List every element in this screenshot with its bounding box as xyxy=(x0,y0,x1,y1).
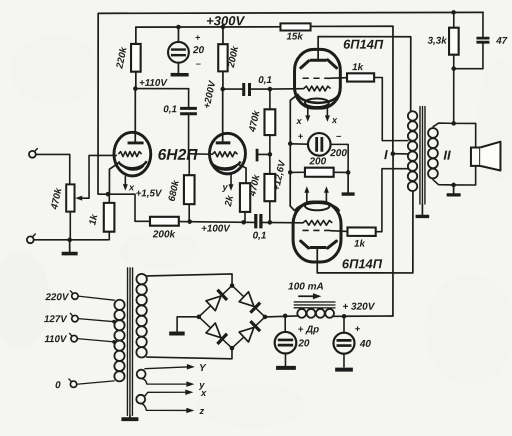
label y xyxy=(198,379,205,390)
label Y xyxy=(199,363,207,374)
label II secondary xyxy=(443,148,451,163)
svg-text:3,3k: 3,3k xyxy=(428,36,448,47)
cathode triode 1 xyxy=(109,161,146,194)
svg-text:200: 200 xyxy=(309,156,327,167)
wire common cathode line xyxy=(290,144,294,211)
resistor 200k feedback xyxy=(150,217,179,226)
screen grid lower (dashed) xyxy=(302,230,347,231)
ground 40uF filter xyxy=(335,368,353,372)
capacitor 20uF filter xyxy=(275,316,297,366)
label 220k xyxy=(114,46,130,71)
svg-text:15k: 15k xyxy=(286,32,303,43)
node +200V xyxy=(220,87,225,92)
svg-text:–: – xyxy=(336,130,341,141)
connector mains 220V xyxy=(70,291,114,300)
label 6П14П lower xyxy=(342,256,383,271)
tube 6П14П lower envelope xyxy=(293,202,341,262)
node bridge right xyxy=(263,315,268,320)
label +200V vertical xyxy=(202,79,219,110)
node 680k bottom xyxy=(187,219,192,224)
resistor 2k cathode triode 2 xyxy=(240,183,250,222)
ground bridge xyxy=(169,332,185,336)
wire +110V node to coupling cap xyxy=(135,88,188,90)
wire cathode to feedback resistor 200k xyxy=(108,194,150,221)
wire +320V to center tap riser xyxy=(344,315,393,317)
label 15k xyxy=(286,32,303,43)
connector input jack top xyxy=(29,149,37,158)
control grid upper zigzag xyxy=(270,86,331,91)
label z xyxy=(198,405,204,416)
resistor 200k plate load 2 xyxy=(218,27,227,89)
transformer power HV secondary xyxy=(136,274,146,358)
label I primary xyxy=(384,147,388,162)
capacitor 20uF electrolytic (decoupling) xyxy=(168,27,189,73)
transformer output secondary winding II xyxy=(428,128,438,178)
heater output y xyxy=(147,381,195,387)
label +320V xyxy=(342,302,375,313)
svg-text:1k: 1k xyxy=(354,239,365,250)
label 200 resistor xyxy=(309,156,327,167)
cathode upper 6П14П xyxy=(290,94,339,144)
wire junction to secondary top xyxy=(453,69,455,124)
heater output x xyxy=(148,390,194,396)
heater output z xyxy=(146,408,194,413)
node bridge left xyxy=(197,315,202,320)
wire secondary to speaker top xyxy=(454,123,476,147)
svg-text:100 mA: 100 mA xyxy=(288,282,324,293)
label +12,6V vertical xyxy=(271,158,288,192)
node primary tap 110V xyxy=(112,340,116,344)
wire +200V node xyxy=(223,88,243,90)
resistor 680k grid leak xyxy=(184,154,195,222)
control grid lower zigzag xyxy=(303,220,332,225)
svg-text:x: x xyxy=(296,116,303,126)
resistor 1k screen upper xyxy=(347,73,408,140)
capacitor 0.1 interstage coupling xyxy=(180,89,197,154)
node bridge top xyxy=(230,283,235,288)
node midpoint 470k divider xyxy=(268,152,273,157)
label 0,1 top xyxy=(258,75,272,86)
node 3.3k/47 junction xyxy=(451,66,456,71)
node center tap xyxy=(391,151,396,156)
svg-text:II: II xyxy=(443,148,451,163)
label +1,5V xyxy=(136,188,163,199)
svg-text:20: 20 xyxy=(192,45,205,56)
transformer power primary winding xyxy=(114,300,124,382)
label 0,1 bottom xyxy=(253,230,267,241)
label + 40 xyxy=(355,323,372,350)
wire B+ center tap feed xyxy=(393,26,408,316)
heater lead y triode 2 xyxy=(229,175,234,191)
svg-text:200k: 200k xyxy=(152,229,176,240)
svg-text:y: y xyxy=(221,182,228,192)
label 110V xyxy=(44,334,68,345)
svg-text:+1,5V: +1,5V xyxy=(136,188,163,199)
anode triode 2 xyxy=(216,89,231,143)
diode bridge top-right xyxy=(239,292,260,313)
svg-text:1k: 1k xyxy=(352,62,363,73)
label +100V xyxy=(201,223,231,234)
tube 6Н2П triode 2 envelope xyxy=(209,133,245,174)
label x heater xyxy=(128,182,135,192)
node filter cap 20 xyxy=(283,314,288,319)
label 470k pot xyxy=(49,187,65,212)
resistor 200 cathode bias xyxy=(290,168,348,177)
label x x heaters xyxy=(296,115,339,126)
tube 6П14П upper envelope xyxy=(294,49,340,108)
label 6Н2П xyxy=(158,147,199,164)
screen grid upper (dashed) xyxy=(303,77,347,80)
ground 20uF xyxy=(171,73,189,77)
node pot bottom / ground xyxy=(67,238,72,243)
label y heater xyxy=(221,182,228,192)
label +110V xyxy=(139,78,168,89)
node +110V xyxy=(133,86,138,91)
cathode lower 6П14П xyxy=(295,202,339,212)
svg-text:x: x xyxy=(200,387,207,398)
resistor 3,3k feedback xyxy=(449,12,459,68)
wire bridge diamond xyxy=(199,286,265,349)
svg-text:0,1: 0,1 xyxy=(258,75,272,86)
resistor 1k screen lower xyxy=(347,169,407,236)
svg-text:127V: 127V xyxy=(44,314,68,325)
label + 200 - xyxy=(298,130,348,159)
terminal stub at 470k midpoint xyxy=(257,149,270,162)
svg-text:0,1: 0,1 xyxy=(253,230,267,241)
label 20 filter xyxy=(297,338,310,349)
heater leads lower 6П14П xyxy=(304,186,329,202)
svg-text:+: + xyxy=(195,32,201,42)
node +300V at plate resistor 200k xyxy=(221,25,226,30)
svg-text:+110V: +110V xyxy=(139,78,168,89)
ground 20uF filter xyxy=(276,366,296,370)
node 200/200 ground junction xyxy=(346,170,351,175)
node 2k bottom xyxy=(241,220,246,225)
svg-text:z: z xyxy=(198,405,204,416)
node +320V xyxy=(342,314,347,319)
wire secondary bottom lead xyxy=(433,180,454,185)
label 470k upper xyxy=(247,109,263,134)
node grid lower 6П14П xyxy=(267,220,272,225)
label 3,3k xyxy=(428,36,448,47)
ground cathode network xyxy=(342,172,355,194)
svg-text:x: x xyxy=(128,182,135,192)
label 200k vertical xyxy=(226,45,242,70)
capacitor 47 feedback xyxy=(454,12,490,68)
label 680k xyxy=(167,179,182,203)
label 100 mA with arrow xyxy=(288,282,324,300)
label + 20 - xyxy=(192,32,205,68)
wire HV secondary bottom to bridge xyxy=(147,348,232,359)
node cathode triode 1 (+1,5V) xyxy=(106,192,111,197)
diode bridge top-left xyxy=(206,290,227,311)
ground input xyxy=(62,240,78,254)
resistor 15k B+ dropper xyxy=(280,23,310,30)
wire bridge plus to choke xyxy=(265,316,297,317)
node cathode at cap 200 xyxy=(288,141,293,146)
wire +300V rail xyxy=(136,26,393,27)
transformer output primary winding I xyxy=(408,111,417,191)
label + Др xyxy=(298,324,320,335)
label 1k upper xyxy=(352,62,363,73)
label +300V xyxy=(206,13,245,28)
node primary tap 127V xyxy=(112,320,116,324)
node grid upper 6П14П xyxy=(268,87,273,92)
grid triode 1 xyxy=(118,152,141,157)
wire secondary to speaker bottom xyxy=(454,166,476,185)
resistor 470k grid lower xyxy=(264,154,275,222)
svg-text:+ 320V: + 320V xyxy=(342,302,375,313)
wire HV secondary top to bridge xyxy=(147,274,232,286)
node secondary bottom xyxy=(451,183,456,188)
wire input jack to volume pot xyxy=(36,154,70,184)
transformer power core xyxy=(127,268,132,416)
cathode triode 2 xyxy=(211,161,246,183)
connector input jack bottom (ground side) xyxy=(27,234,35,243)
anode lower 6П14П xyxy=(301,241,337,273)
svg-text:+100V: +100V xyxy=(201,223,231,234)
connector mains 127V xyxy=(70,313,114,322)
potentiometer 470k volume xyxy=(66,184,74,240)
resistor 1k cathode xyxy=(104,194,115,240)
svg-text:47: 47 xyxy=(495,36,507,47)
svg-text:0: 0 xyxy=(55,380,61,391)
wire +100V line xyxy=(179,222,303,223)
label 47 xyxy=(495,36,507,47)
svg-text:+: + xyxy=(298,130,304,141)
heater lead x triode 1 xyxy=(123,177,128,191)
svg-text:x: x xyxy=(331,115,338,125)
heater output Y xyxy=(145,364,195,370)
svg-text:6П14П: 6П14П xyxy=(342,256,383,271)
label 1k xyxy=(87,213,100,226)
wire bridge minus to ground xyxy=(177,317,199,332)
transformer power heater winding 1 xyxy=(137,370,147,384)
label 6П14П upper xyxy=(343,37,384,52)
label 1k lower xyxy=(354,239,365,250)
svg-text:+: + xyxy=(355,323,361,334)
wire feedback line (top frame, from secondary network to input stage cathode) xyxy=(98,12,483,194)
svg-text:20: 20 xyxy=(297,338,310,349)
connector mains 110V xyxy=(69,333,114,342)
svg-text:6П14П: 6П14П xyxy=(343,37,384,52)
ground power transformer core xyxy=(121,415,138,419)
capacitor 200uF cathode bypass xyxy=(290,133,348,172)
node bridge bottom xyxy=(230,346,235,351)
wire anode upper 6П14П to transformer primary top xyxy=(318,37,411,112)
node feedback/3.3k junction on top line xyxy=(451,10,456,15)
connector mains 0 xyxy=(69,379,114,388)
svg-text:110V: 110V xyxy=(44,334,68,345)
svg-text:40: 40 xyxy=(359,339,372,350)
svg-text:220V: 220V xyxy=(44,292,69,303)
svg-text:+300V: +300V xyxy=(206,13,245,28)
heater leads upper 6П14П xyxy=(305,109,330,122)
label 0,1 xyxy=(163,104,177,115)
wire grid of 6Н2П to pot wiper xyxy=(75,155,116,200)
svg-text:6Н2П: 6Н2П xyxy=(158,147,199,164)
label 220V xyxy=(44,292,69,303)
resistor 220k plate load xyxy=(131,27,141,89)
svg-text:+ Др: + Др xyxy=(298,324,320,335)
transformer power heater winding 2 xyxy=(136,392,148,410)
node +300V at filter cap 20 xyxy=(176,25,181,30)
ground output transformer core xyxy=(416,204,430,216)
label x xyxy=(200,387,207,398)
wire input ground bus xyxy=(34,239,108,241)
grid triode 2 xyxy=(189,152,238,157)
capacitor 0.1 coupling to lower 6П14П xyxy=(256,214,261,228)
label 470k lower xyxy=(247,173,263,198)
label 127V xyxy=(44,314,68,325)
svg-text:I: I xyxy=(384,147,388,162)
label 2k xyxy=(223,194,236,208)
anode upper 6П14П xyxy=(301,37,337,68)
transformer output core xyxy=(420,107,425,205)
capacitor 40uF filter xyxy=(333,316,354,367)
inductor choke Др xyxy=(294,302,344,318)
resistor 470k grid upper xyxy=(264,89,275,154)
speaker xyxy=(471,142,501,171)
svg-text:200: 200 xyxy=(329,148,347,159)
diode bridge bottom-left xyxy=(206,323,227,344)
svg-text:–: – xyxy=(196,58,201,68)
label 0 xyxy=(55,380,61,391)
node cathode at resistor 200 xyxy=(288,170,293,175)
node secondary top xyxy=(451,121,456,126)
anode triode 1 xyxy=(128,89,144,143)
ground secondary xyxy=(447,185,461,195)
label 200k horizontal xyxy=(152,229,176,240)
wire secondary top lead xyxy=(433,123,454,127)
tube 6Н2П triode 1 envelope xyxy=(114,132,151,176)
diode bridge bottom-right xyxy=(239,321,260,342)
capacitor 0.1 coupling to upper 6П14П xyxy=(244,83,270,96)
wire anode lower 6П14П to transformer primary bottom xyxy=(317,191,413,273)
svg-text:0,1: 0,1 xyxy=(163,104,177,115)
